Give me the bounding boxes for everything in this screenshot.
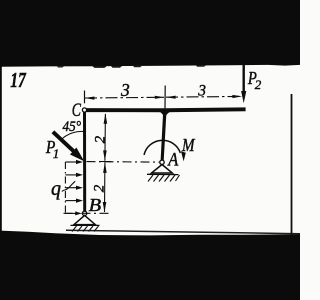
svg-text:A: A bbox=[167, 150, 179, 171]
svg-text:C: C bbox=[72, 101, 82, 121]
moment M arrowhead bbox=[181, 151, 186, 161]
hinge circle at B bbox=[82, 211, 86, 215]
top dimension extension tick at middle bbox=[164, 86, 166, 109]
faint cell bottom border line bbox=[66, 230, 300, 234]
svg-text:3: 3 bbox=[197, 82, 206, 99]
45 degree arc bbox=[61, 131, 84, 139]
svg-text:q: q bbox=[51, 178, 61, 200]
distributed load q arrow 5 bbox=[65, 212, 77, 214]
svg-text:3: 3 bbox=[120, 80, 130, 100]
dimension line span 1 (3) bbox=[85, 96, 165, 99]
hinge circle at C bbox=[82, 108, 86, 112]
distributed load q left edge bbox=[64, 162, 66, 213]
horizontal beam from C to right end bbox=[83, 107, 246, 112]
svg-text:45°: 45° bbox=[63, 119, 82, 135]
ground line at B bbox=[71, 224, 100, 226]
moment M arc bbox=[144, 140, 180, 155]
svg-text:2: 2 bbox=[91, 184, 107, 192]
top band ragged teeth bbox=[57, 66, 64, 67]
distributed load q arrow 1 bbox=[65, 161, 78, 163]
ground line at A bbox=[147, 173, 179, 175]
left page edge bbox=[0, 60, 2, 240]
hinge circle at A bbox=[160, 160, 164, 164]
force P2 arrow bbox=[242, 65, 244, 92]
svg-text:B: B bbox=[89, 195, 102, 215]
svg-text:2: 2 bbox=[92, 135, 108, 143]
dashed level line from P1 point to A bbox=[87, 161, 160, 164]
left column member C to B bbox=[83, 111, 86, 213]
middle vertical member down to A bbox=[161, 111, 167, 161]
vertical dimension line lower segment (2) bbox=[104, 163, 106, 213]
top scan band bbox=[0, 0, 300, 67]
pin support triangle at A bbox=[152, 165, 173, 174]
force P1 arrow bbox=[53, 132, 74, 152]
top dimension extension tick at C bbox=[84, 91, 86, 104]
joint fillet at beam and middle member bbox=[159, 111, 171, 118]
svg-text:M: M bbox=[181, 135, 196, 155]
ground hatching at B bbox=[72, 226, 99, 232]
bottom scan band bbox=[0, 231, 300, 300]
q leader line bbox=[62, 181, 75, 191]
vertical dimension line upper segment (2) bbox=[104, 114, 107, 161]
distributed load q arrow 3 bbox=[65, 187, 78, 189]
dimension line span 2 (3) bbox=[166, 95, 242, 98]
vertical dimension middle tick bbox=[99, 161, 111, 163]
right cell border bbox=[291, 94, 293, 236]
ground hatching at A bbox=[148, 175, 180, 182]
pin support triangle at B bbox=[74, 215, 95, 224]
distributed load q arrow 4 bbox=[65, 200, 78, 202]
dashed level line at B bbox=[64, 212, 112, 214]
distributed load q arrow 2 bbox=[65, 174, 78, 176]
svg-text:17: 17 bbox=[10, 68, 27, 92]
